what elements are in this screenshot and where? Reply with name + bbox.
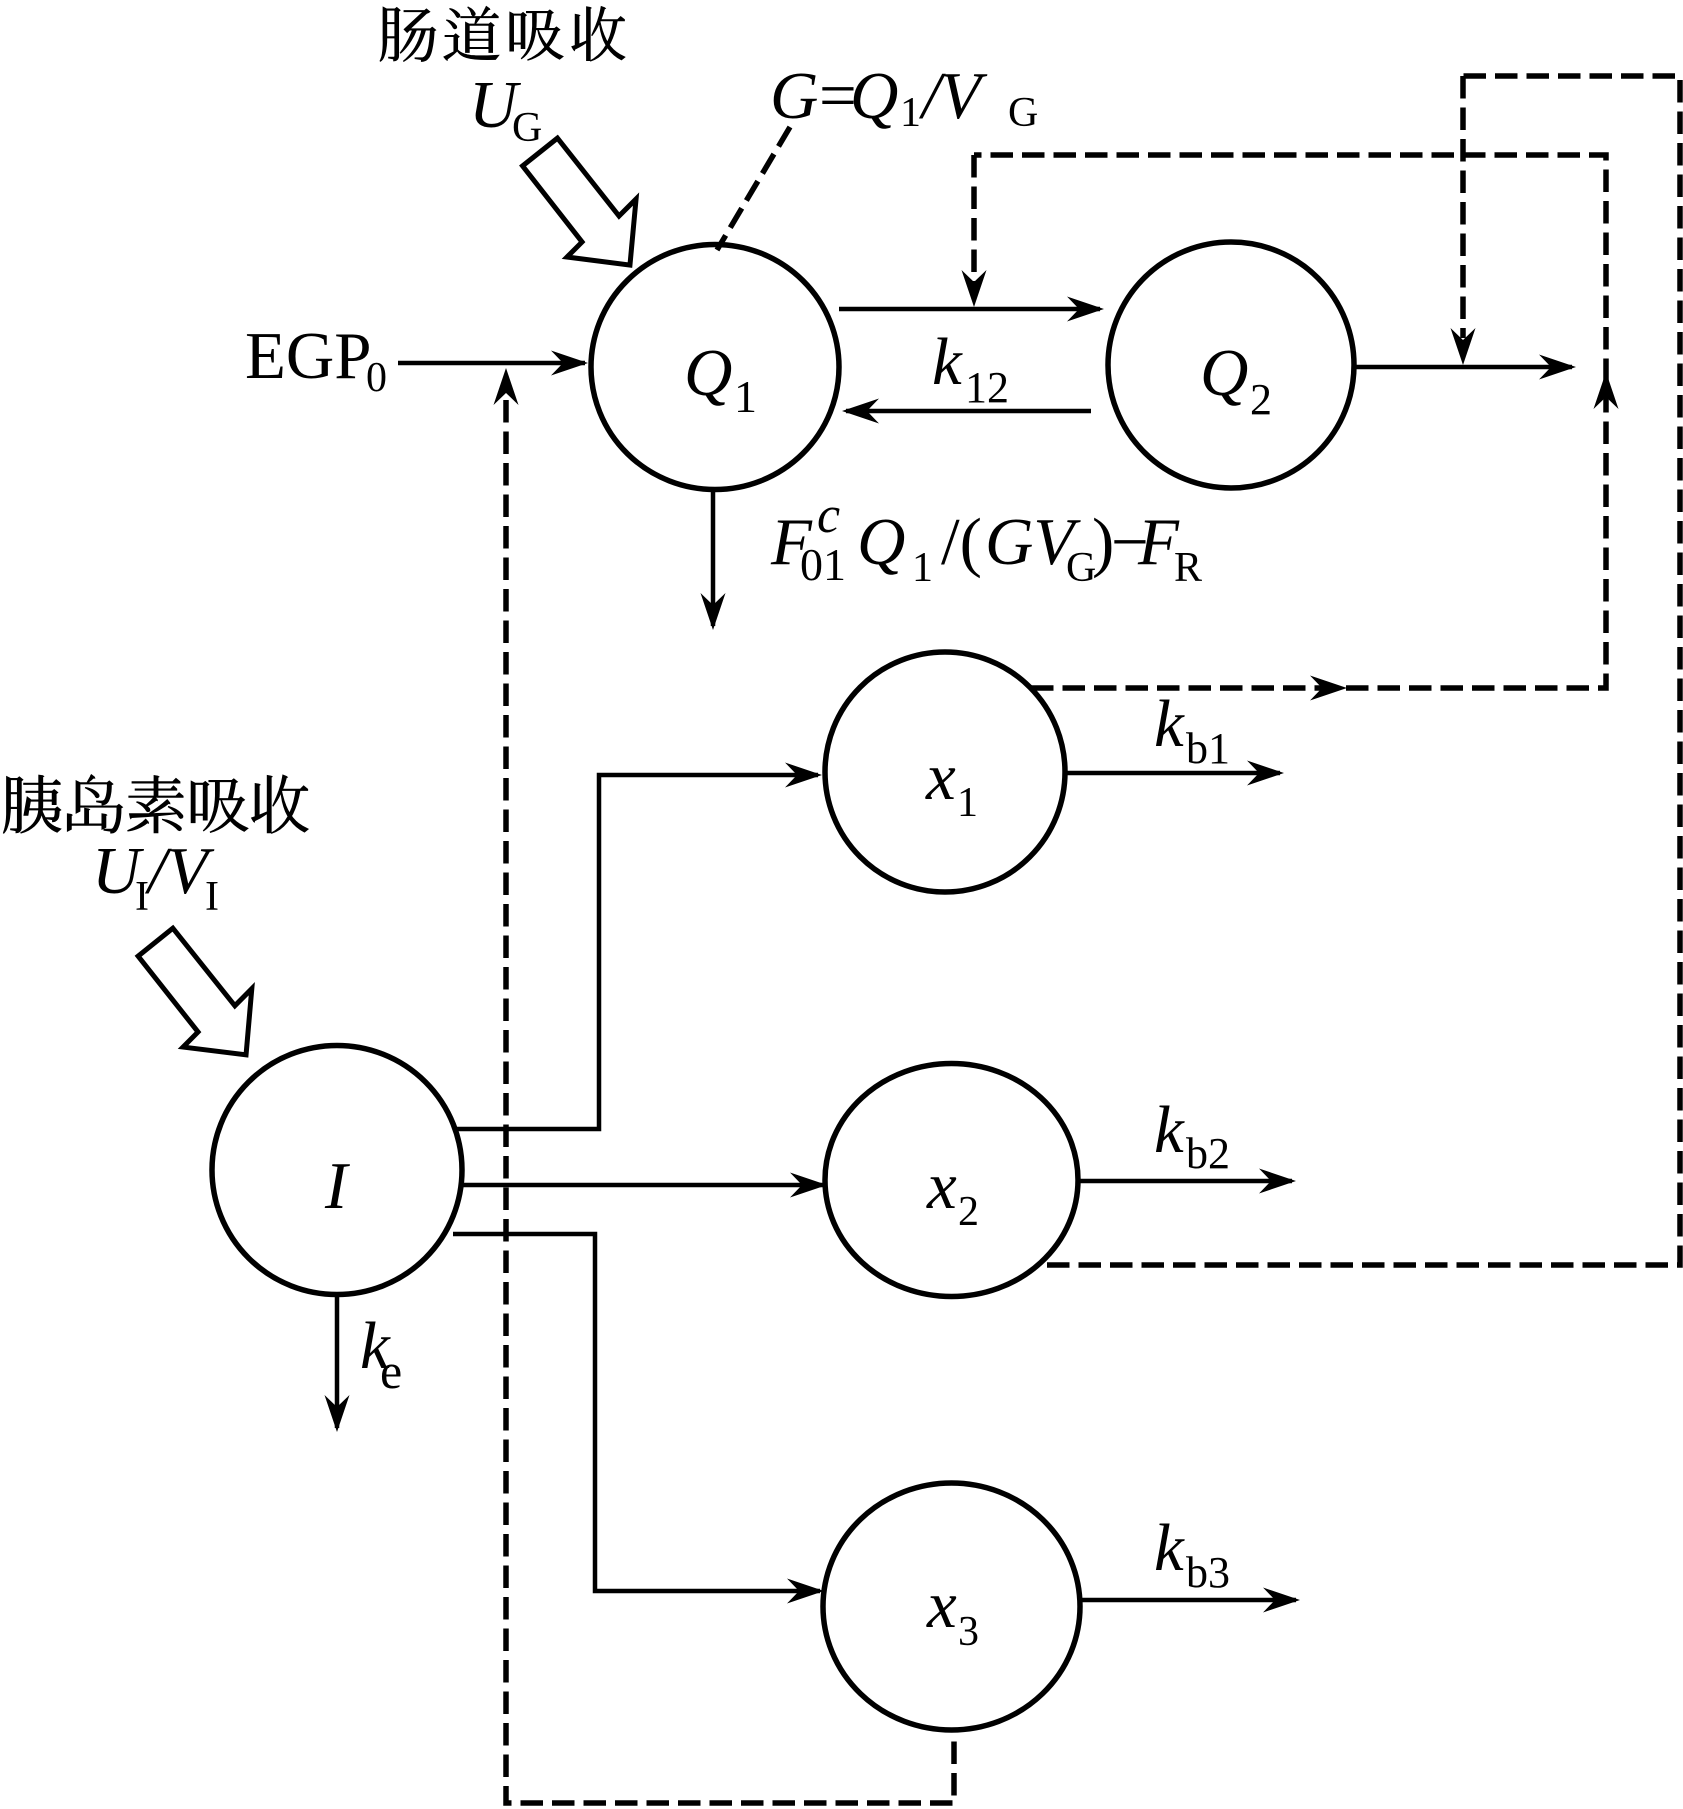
svg-text:2: 2 — [1250, 375, 1272, 424]
svg-text:b3: b3 — [1186, 1548, 1230, 1597]
svg-text:/(: /( — [941, 505, 982, 579]
svg-text:V: V — [940, 59, 988, 133]
svg-text:12: 12 — [965, 363, 1009, 412]
svg-text:b2: b2 — [1186, 1129, 1230, 1178]
svg-text:01: 01 — [800, 539, 846, 590]
svg-text:1: 1 — [957, 780, 978, 826]
svg-text:3: 3 — [958, 1609, 979, 1655]
svg-text:Q: Q — [850, 59, 898, 133]
svg-text:1: 1 — [912, 545, 933, 591]
svg-text:Q: Q — [1200, 336, 1248, 410]
svg-text:x: x — [926, 1568, 957, 1642]
svg-text:x: x — [925, 740, 956, 814]
svg-text:I: I — [205, 874, 219, 920]
svg-text:k: k — [1154, 1511, 1185, 1585]
svg-text:I: I — [324, 1149, 350, 1223]
svg-text:c: c — [817, 487, 840, 544]
svg-text:Q: Q — [857, 505, 905, 579]
svg-text:2: 2 — [958, 1189, 979, 1235]
svg-text:e: e — [380, 1343, 402, 1399]
svg-text:G: G — [512, 105, 542, 151]
svg-text:EGP: EGP — [245, 319, 372, 393]
svg-text:1: 1 — [734, 371, 757, 422]
svg-text:Q: Q — [684, 336, 732, 410]
svg-text:k: k — [1154, 687, 1185, 761]
svg-text:k: k — [932, 325, 963, 399]
svg-text:R: R — [1174, 545, 1202, 591]
svg-text:G: G — [1008, 90, 1038, 136]
svg-text:G: G — [770, 59, 818, 133]
svg-text:0: 0 — [366, 355, 387, 401]
svg-text:k: k — [1154, 1093, 1185, 1167]
svg-text:I: I — [135, 874, 149, 920]
svg-text:x: x — [926, 1149, 957, 1223]
svg-text:1: 1 — [900, 90, 921, 136]
svg-text:b1: b1 — [1186, 724, 1230, 773]
